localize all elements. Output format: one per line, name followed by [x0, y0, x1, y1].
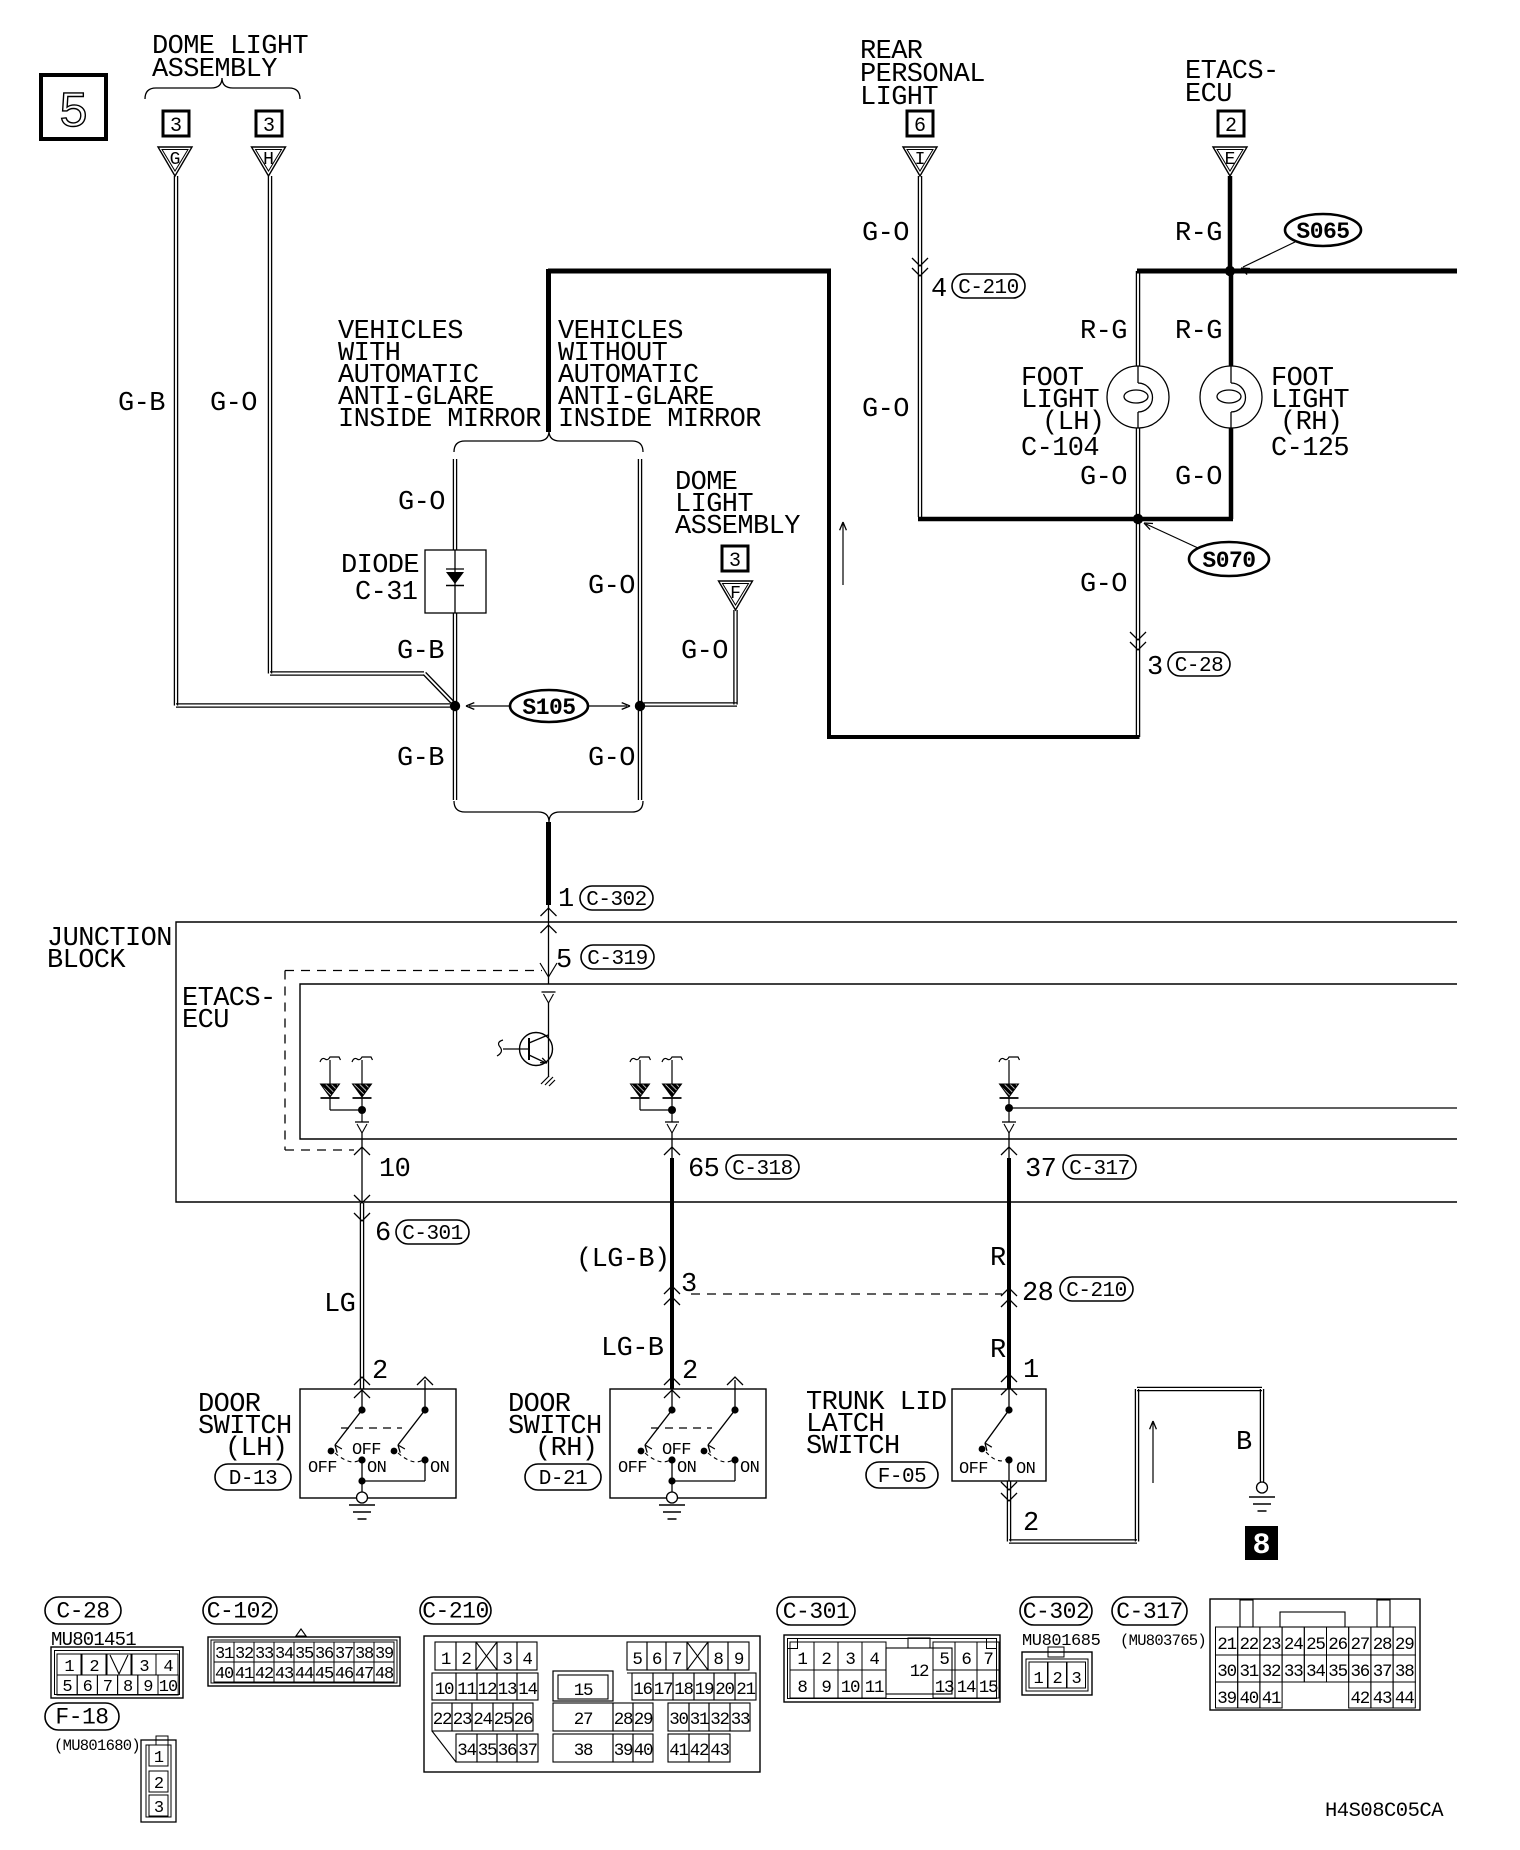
svg-text:65: 65: [688, 1155, 719, 1185]
connector label C-302: [1020, 1597, 1092, 1625]
svg-text:ON: ON: [740, 1459, 759, 1478]
wire right branch (without mirror): [637, 459, 639, 800]
svg-text:37: 37: [335, 1645, 353, 1664]
connector label C-28: [45, 1597, 121, 1624]
svg-text:ON: ON: [1016, 1460, 1035, 1479]
svg-text:(MU803765): (MU803765): [1120, 1632, 1206, 1650]
svg-text:42: 42: [1350, 1689, 1369, 1709]
splice S105: [510, 690, 588, 722]
wire pin 10 exit: [361, 1133, 363, 1202]
svg-text:H: H: [263, 150, 274, 170]
svg-text:46: 46: [335, 1665, 354, 1684]
svg-text:C-104: C-104: [1021, 434, 1099, 464]
svg-text:33: 33: [1284, 1662, 1303, 1682]
svg-text:24: 24: [1284, 1635, 1303, 1655]
svg-text:28: 28: [1022, 1279, 1053, 1309]
connector symbol at inner box top: [542, 991, 556, 993]
svg-text:G: G: [170, 150, 181, 170]
svg-text:6: 6: [83, 1678, 93, 1697]
svg-text:21: 21: [1217, 1635, 1236, 1655]
svg-text:35: 35: [478, 1741, 497, 1761]
svg-text:12: 12: [478, 1680, 497, 1700]
wire G-O from dome light F: [733, 610, 735, 705]
svg-text:C-317: C-317: [1069, 1158, 1130, 1181]
svg-text:37: 37: [518, 1741, 537, 1761]
svg-text:8: 8: [1252, 1529, 1270, 1563]
svg-text:8: 8: [797, 1678, 807, 1698]
direction arrow up: [1152, 1423, 1154, 1483]
svg-text:32: 32: [1262, 1662, 1281, 1682]
svg-text:ECU: ECU: [182, 1006, 229, 1036]
connector C-102 pinout: [296, 1629, 306, 1636]
connector box 3 (G): [163, 111, 189, 136]
svg-text:1: 1: [797, 1650, 807, 1670]
wire G-B from dome light G: [173, 176, 175, 706]
svg-text:25: 25: [1306, 1635, 1325, 1655]
svg-text:ASSEMBLY: ASSEMBLY: [152, 55, 277, 85]
svg-text:5: 5: [58, 85, 88, 142]
ETACS inner solid box: [300, 984, 1457, 1139]
svg-text:2: 2: [1023, 1509, 1039, 1539]
svg-text:2: 2: [154, 1775, 163, 1794]
svg-text:4: 4: [931, 275, 947, 305]
in-line marker 28 C-210: [1001, 1288, 1017, 1296]
wire below foot light LH: [1135, 428, 1137, 516]
svg-text:ASSEMBLY: ASSEMBLY: [675, 512, 800, 542]
svg-text:28: 28: [614, 1710, 633, 1730]
svg-text:C-210: C-210: [422, 1599, 489, 1625]
svg-text:20: 20: [715, 1680, 734, 1700]
svg-text:34: 34: [1306, 1662, 1325, 1682]
connector triangle G: [158, 147, 192, 176]
wire loop thick: stub down to S105 section: [546, 269, 551, 432]
wire pin 2 to ground: [1001, 1482, 1017, 1490]
svg-text:19: 19: [695, 1680, 714, 1700]
junction dot right: [635, 701, 645, 711]
svg-text:31: 31: [690, 1710, 709, 1730]
svg-text:S065: S065: [1296, 219, 1349, 245]
svg-text:LG: LG: [324, 1290, 355, 1320]
in-line marker 3 C-210 (dashed link): [664, 1286, 680, 1294]
svg-text:31: 31: [1239, 1662, 1258, 1682]
wire to foot light RH thick: [1229, 271, 1234, 366]
svg-text:G-O: G-O: [1175, 463, 1222, 493]
wire loop: right vertical: [827, 269, 831, 739]
connector F-18 pinout: [141, 1740, 176, 1822]
svg-text:44: 44: [295, 1665, 314, 1684]
svg-text:C-28: C-28: [1175, 655, 1223, 678]
svg-text:27: 27: [1350, 1635, 1369, 1655]
svg-text:3: 3: [729, 550, 741, 573]
svg-text:4: 4: [869, 1650, 879, 1670]
in-line connector marker 4 C-210: [912, 258, 928, 266]
connector box 2: [1218, 111, 1244, 136]
svg-text:2: 2: [682, 1357, 698, 1387]
svg-text:(RH): (RH): [535, 1434, 597, 1464]
svg-text:41: 41: [235, 1665, 254, 1684]
arrow at ETACS boundary: [540, 963, 557, 977]
svg-text:4: 4: [522, 1650, 532, 1670]
svg-text:18: 18: [674, 1680, 693, 1700]
svg-text:OFF: OFF: [662, 1441, 691, 1460]
svg-text:7: 7: [672, 1650, 682, 1670]
svg-text:R-G: R-G: [1175, 317, 1222, 347]
connector label F-18: [45, 1703, 119, 1730]
svg-text:42: 42: [255, 1665, 273, 1684]
svg-text:R-G: R-G: [1080, 317, 1127, 347]
svg-text:43: 43: [1373, 1689, 1392, 1709]
wire below foot light RH thick: [1229, 428, 1234, 519]
splice S070: [1189, 542, 1269, 576]
svg-text:10: 10: [159, 1678, 178, 1697]
svg-text:LIGHT: LIGHT: [860, 83, 938, 113]
svg-text:9: 9: [143, 1678, 153, 1697]
svg-text:H4S08C05CA: H4S08C05CA: [1325, 1800, 1444, 1823]
svg-text:5: 5: [939, 1650, 949, 1670]
connector box 6: [907, 111, 933, 136]
svg-text:32: 32: [235, 1645, 253, 1664]
door switch RH D-21: [610, 1389, 766, 1498]
junction S065 dot: [1225, 266, 1235, 276]
wire G-O down from S070: [1135, 519, 1137, 737]
connector C-210 pinout: [424, 1636, 760, 1772]
trunk lid latch switch F-05: [952, 1389, 1046, 1481]
svg-text:R: R: [990, 1336, 1006, 1366]
svg-text:39: 39: [375, 1645, 394, 1664]
door switch LH D-13: [300, 1389, 456, 1498]
svg-text:G-O: G-O: [862, 395, 909, 425]
svg-text:33: 33: [731, 1710, 750, 1730]
svg-text:D-21: D-21: [539, 1468, 587, 1491]
svg-text:29: 29: [1395, 1635, 1414, 1655]
svg-text:C-28: C-28: [56, 1599, 109, 1625]
transistor Q1: [520, 1033, 553, 1066]
svg-text:30: 30: [1217, 1662, 1236, 1682]
svg-text:OFF: OFF: [618, 1459, 647, 1478]
svg-text:33: 33: [255, 1645, 274, 1664]
svg-text:43: 43: [710, 1741, 729, 1761]
svg-text:OFF: OFF: [352, 1441, 381, 1460]
svg-text:14: 14: [957, 1678, 976, 1698]
svg-text:C-210: C-210: [1066, 1280, 1127, 1303]
svg-text:B: B: [1236, 1428, 1252, 1458]
svg-text:I: I: [915, 150, 926, 170]
connector C-28 pinout: [51, 1647, 183, 1698]
wire R thick to trunk lid switch: [1007, 1158, 1011, 1389]
ETACS-ECU dashed boundary: [285, 970, 542, 972]
svg-text:28: 28: [1373, 1635, 1392, 1655]
svg-text:1: 1: [64, 1658, 74, 1677]
svg-text:37: 37: [1373, 1662, 1392, 1682]
svg-text:3: 3: [263, 115, 275, 138]
connector label C-317: [1112, 1597, 1187, 1625]
svg-text:36: 36: [1350, 1662, 1369, 1682]
svg-text:16: 16: [633, 1680, 652, 1700]
svg-text:13: 13: [498, 1680, 517, 1700]
label D-21: [525, 1464, 601, 1490]
wire pin 65 exit: [671, 1133, 673, 1158]
svg-text:6: 6: [961, 1650, 971, 1670]
svg-text:36: 36: [498, 1741, 517, 1761]
off-page reference 8: [1245, 1526, 1278, 1560]
connector C-302 pinout: [1022, 1652, 1092, 1695]
brace dome light assembly: [145, 78, 300, 99]
ECU internal diode pair B (door switch RH sense): [630, 1057, 651, 1063]
diode C-31 symbol: [454, 550, 456, 613]
connector C-317 pinout: [1210, 1599, 1420, 1710]
svg-text:8: 8: [713, 1650, 723, 1670]
foot light LH bulb: [1107, 366, 1169, 428]
svg-text:23: 23: [453, 1710, 472, 1730]
wire into junction block pin 5: [548, 905, 550, 984]
svg-text:G-O: G-O: [862, 219, 909, 249]
svg-text:C-210: C-210: [958, 277, 1019, 300]
svg-text:3: 3: [1071, 1670, 1081, 1689]
svg-text:43: 43: [275, 1665, 294, 1684]
connector C-301 pinout: [784, 1635, 1000, 1702]
svg-text:13: 13: [935, 1678, 954, 1698]
svg-text:40: 40: [215, 1665, 234, 1684]
svg-text:C-302: C-302: [1023, 1599, 1090, 1625]
svg-text:3: 3: [502, 1650, 512, 1670]
direction arrow up: [842, 524, 844, 585]
wire R-G bus thick horizontal: [1137, 269, 1457, 274]
svg-text:17: 17: [654, 1680, 673, 1700]
svg-text:G-O: G-O: [1080, 463, 1127, 493]
svg-text:3: 3: [139, 1658, 149, 1677]
wire loop thick: top horizontal: [548, 269, 831, 274]
svg-text:6: 6: [652, 1650, 662, 1670]
svg-text:35: 35: [1328, 1662, 1347, 1682]
svg-text:C-317: C-317: [1116, 1599, 1183, 1625]
svg-text:D-13: D-13: [229, 1468, 277, 1491]
foot light RH bulb: [1200, 366, 1262, 428]
svg-text:3: 3: [681, 1270, 697, 1300]
svg-text:INSIDE MIRROR: INSIDE MIRROR: [338, 405, 541, 435]
svg-text:41: 41: [669, 1741, 688, 1761]
svg-text:G-O: G-O: [588, 572, 635, 602]
svg-text:(MU801680): (MU801680): [54, 1737, 140, 1755]
svg-text:OFF: OFF: [308, 1459, 337, 1478]
svg-text:G-B: G-B: [118, 389, 165, 419]
wire G-O from rear personal light: [917, 176, 919, 517]
svg-text:40: 40: [1239, 1689, 1258, 1709]
svg-text:34: 34: [457, 1741, 476, 1761]
svg-text:LG-B: LG-B: [601, 1334, 664, 1364]
ground (body): [1257, 1482, 1268, 1493]
svg-text:47: 47: [355, 1665, 373, 1684]
svg-text:2: 2: [89, 1658, 98, 1677]
svg-text:2: 2: [1052, 1670, 1061, 1689]
connector label C-301: [777, 1597, 855, 1625]
svg-text:1: 1: [154, 1749, 164, 1768]
label D-13: [215, 1464, 291, 1490]
connector box 3 (F): [722, 546, 748, 571]
svg-text:C-102: C-102: [207, 1599, 274, 1625]
ECU internal diode C (trunk lid sense): [999, 1057, 1020, 1063]
svg-text:5: 5: [632, 1650, 642, 1670]
svg-text:G-B: G-B: [397, 637, 444, 667]
svg-text:ECU: ECU: [1185, 80, 1232, 110]
svg-text:26: 26: [514, 1710, 533, 1730]
svg-text:1: 1: [1033, 1670, 1043, 1689]
svg-text:C-301: C-301: [402, 1223, 463, 1246]
svg-text:C-319: C-319: [587, 948, 648, 971]
svg-text:ON: ON: [367, 1459, 386, 1478]
connector triangle I: [903, 147, 937, 176]
svg-text:F: F: [730, 584, 741, 604]
svg-text:23: 23: [1262, 1635, 1281, 1655]
svg-text:39: 39: [614, 1741, 633, 1761]
svg-text:(LG-B): (LG-B): [576, 1245, 670, 1275]
svg-text:3: 3: [170, 115, 182, 138]
svg-text:24: 24: [473, 1710, 492, 1730]
svg-text:G-O: G-O: [681, 637, 728, 667]
svg-text:S105: S105: [522, 695, 575, 721]
wire LG to door switch LH: [359, 1203, 361, 1389]
svg-text:C-301: C-301: [783, 1599, 850, 1625]
wire G-O bus thick horizontal at S070: [918, 517, 1233, 522]
wire pin 37 exit: [1008, 1133, 1010, 1158]
svg-text:G-O: G-O: [1080, 570, 1127, 600]
svg-text:41: 41: [1262, 1689, 1281, 1709]
svg-text:27: 27: [574, 1710, 593, 1730]
svg-text:G-B: G-B: [397, 744, 444, 774]
in-line connector marker 3 C-28: [1130, 632, 1146, 640]
svg-text:INSIDE MIRROR: INSIDE MIRROR: [558, 405, 761, 435]
connector triangle F: [719, 581, 753, 610]
svg-text:22: 22: [433, 1710, 452, 1730]
svg-text:F-18: F-18: [55, 1705, 108, 1731]
svg-text:(LH): (LH): [225, 1434, 287, 1464]
svg-text:2: 2: [461, 1650, 471, 1670]
svg-text:4: 4: [163, 1658, 173, 1677]
svg-text:9: 9: [734, 1650, 744, 1670]
svg-text:25: 25: [494, 1710, 513, 1730]
svg-text:1: 1: [441, 1650, 451, 1670]
svg-text:44: 44: [1395, 1689, 1414, 1709]
wire LG-B thick to door switch RH: [670, 1158, 674, 1389]
connector box 3 (H): [256, 111, 282, 136]
diode C-31 box: [425, 550, 486, 613]
brace bottom of S105 section: [454, 801, 643, 822]
svg-text:S070: S070: [1202, 548, 1255, 574]
svg-text:15: 15: [979, 1678, 998, 1698]
svg-text:7: 7: [103, 1678, 112, 1697]
svg-text:11: 11: [457, 1680, 476, 1700]
junction dot left: [450, 701, 460, 711]
svg-text:38: 38: [355, 1645, 374, 1664]
connector label C-210: [420, 1597, 491, 1624]
svg-text:22: 22: [1239, 1635, 1258, 1655]
svg-text:G-O: G-O: [398, 488, 445, 518]
splice S065: [1285, 214, 1361, 246]
svg-text:F-05: F-05: [878, 1466, 926, 1489]
svg-text:ON: ON: [430, 1459, 449, 1478]
svg-text:10: 10: [379, 1155, 410, 1185]
svg-text:10: 10: [435, 1680, 454, 1700]
svg-text:35: 35: [295, 1645, 314, 1664]
transistor emitter ground: [541, 1076, 555, 1086]
svg-text:2: 2: [821, 1650, 831, 1670]
svg-text:34: 34: [275, 1645, 294, 1664]
svg-text:38: 38: [574, 1741, 593, 1761]
ECU internal diode pair A (door switch LH sense): [320, 1057, 341, 1063]
svg-text:12: 12: [910, 1662, 929, 1682]
svg-text:3: 3: [154, 1799, 164, 1818]
svg-text:40: 40: [634, 1741, 653, 1761]
wire left branch (with mirror): [452, 459, 454, 550]
ECU internal bus to right: [1009, 1107, 1457, 1109]
page number 5 box: [41, 75, 106, 139]
svg-text:29: 29: [634, 1710, 653, 1730]
svg-text:45: 45: [315, 1665, 334, 1684]
svg-text:10: 10: [841, 1678, 860, 1698]
svg-text:SWITCH: SWITCH: [806, 1432, 900, 1462]
svg-text:48: 48: [375, 1665, 394, 1684]
svg-text:C-302: C-302: [586, 889, 647, 912]
svg-text:5: 5: [62, 1678, 72, 1697]
svg-text:31: 31: [215, 1645, 234, 1664]
svg-text:6: 6: [375, 1219, 391, 1249]
svg-text:26: 26: [1328, 1635, 1347, 1655]
brace top of S105 section: [454, 431, 643, 452]
connector label C-102: [203, 1597, 277, 1624]
svg-text:G-O: G-O: [210, 389, 257, 419]
wire to transistor collector: [548, 1003, 550, 1077]
connector triangle H: [252, 147, 286, 176]
svg-text:5: 5: [556, 946, 572, 976]
wire thick stub to junction block: [546, 822, 551, 905]
svg-text:38: 38: [1395, 1662, 1414, 1682]
svg-text:36: 36: [315, 1645, 334, 1664]
junction block box: [176, 922, 1457, 1202]
svg-text:2: 2: [1225, 115, 1237, 138]
svg-text:21: 21: [736, 1680, 755, 1700]
svg-text:C-318: C-318: [732, 1158, 793, 1181]
svg-text:R: R: [990, 1244, 1006, 1274]
junction S070 dot: [1133, 514, 1143, 524]
in-line marker 6 C-301: [354, 1195, 370, 1203]
svg-text:BLOCK: BLOCK: [47, 946, 126, 976]
wire R-G thick from ETACS ECU: [1228, 176, 1233, 271]
wire G-O from dome light H: [267, 176, 269, 674]
svg-text:8: 8: [123, 1678, 133, 1697]
svg-text:42: 42: [690, 1741, 709, 1761]
svg-text:3: 3: [845, 1650, 855, 1670]
svg-text:C-31: C-31: [355, 578, 417, 608]
svg-text:G-O: G-O: [588, 744, 635, 774]
svg-text:15: 15: [574, 1681, 593, 1701]
svg-text:14: 14: [518, 1680, 537, 1700]
svg-text:E: E: [1225, 150, 1236, 170]
svg-text:1: 1: [558, 885, 574, 915]
wire to foot light LH: [1135, 271, 1137, 366]
svg-text:11: 11: [865, 1678, 884, 1698]
svg-text:2: 2: [372, 1357, 388, 1387]
label F-05: [866, 1462, 938, 1488]
svg-text:R-G: R-G: [1175, 219, 1222, 249]
wire loop: bottom horizontal: [827, 735, 1140, 739]
svg-text:37: 37: [1025, 1155, 1056, 1185]
svg-text:DIODE: DIODE: [341, 551, 419, 581]
svg-text:OFF: OFF: [959, 1460, 988, 1479]
svg-text:30: 30: [669, 1710, 688, 1730]
svg-text:C-125: C-125: [1271, 434, 1349, 464]
svg-text:6: 6: [914, 115, 926, 138]
svg-text:ON: ON: [677, 1459, 696, 1478]
svg-text:9: 9: [821, 1678, 831, 1698]
